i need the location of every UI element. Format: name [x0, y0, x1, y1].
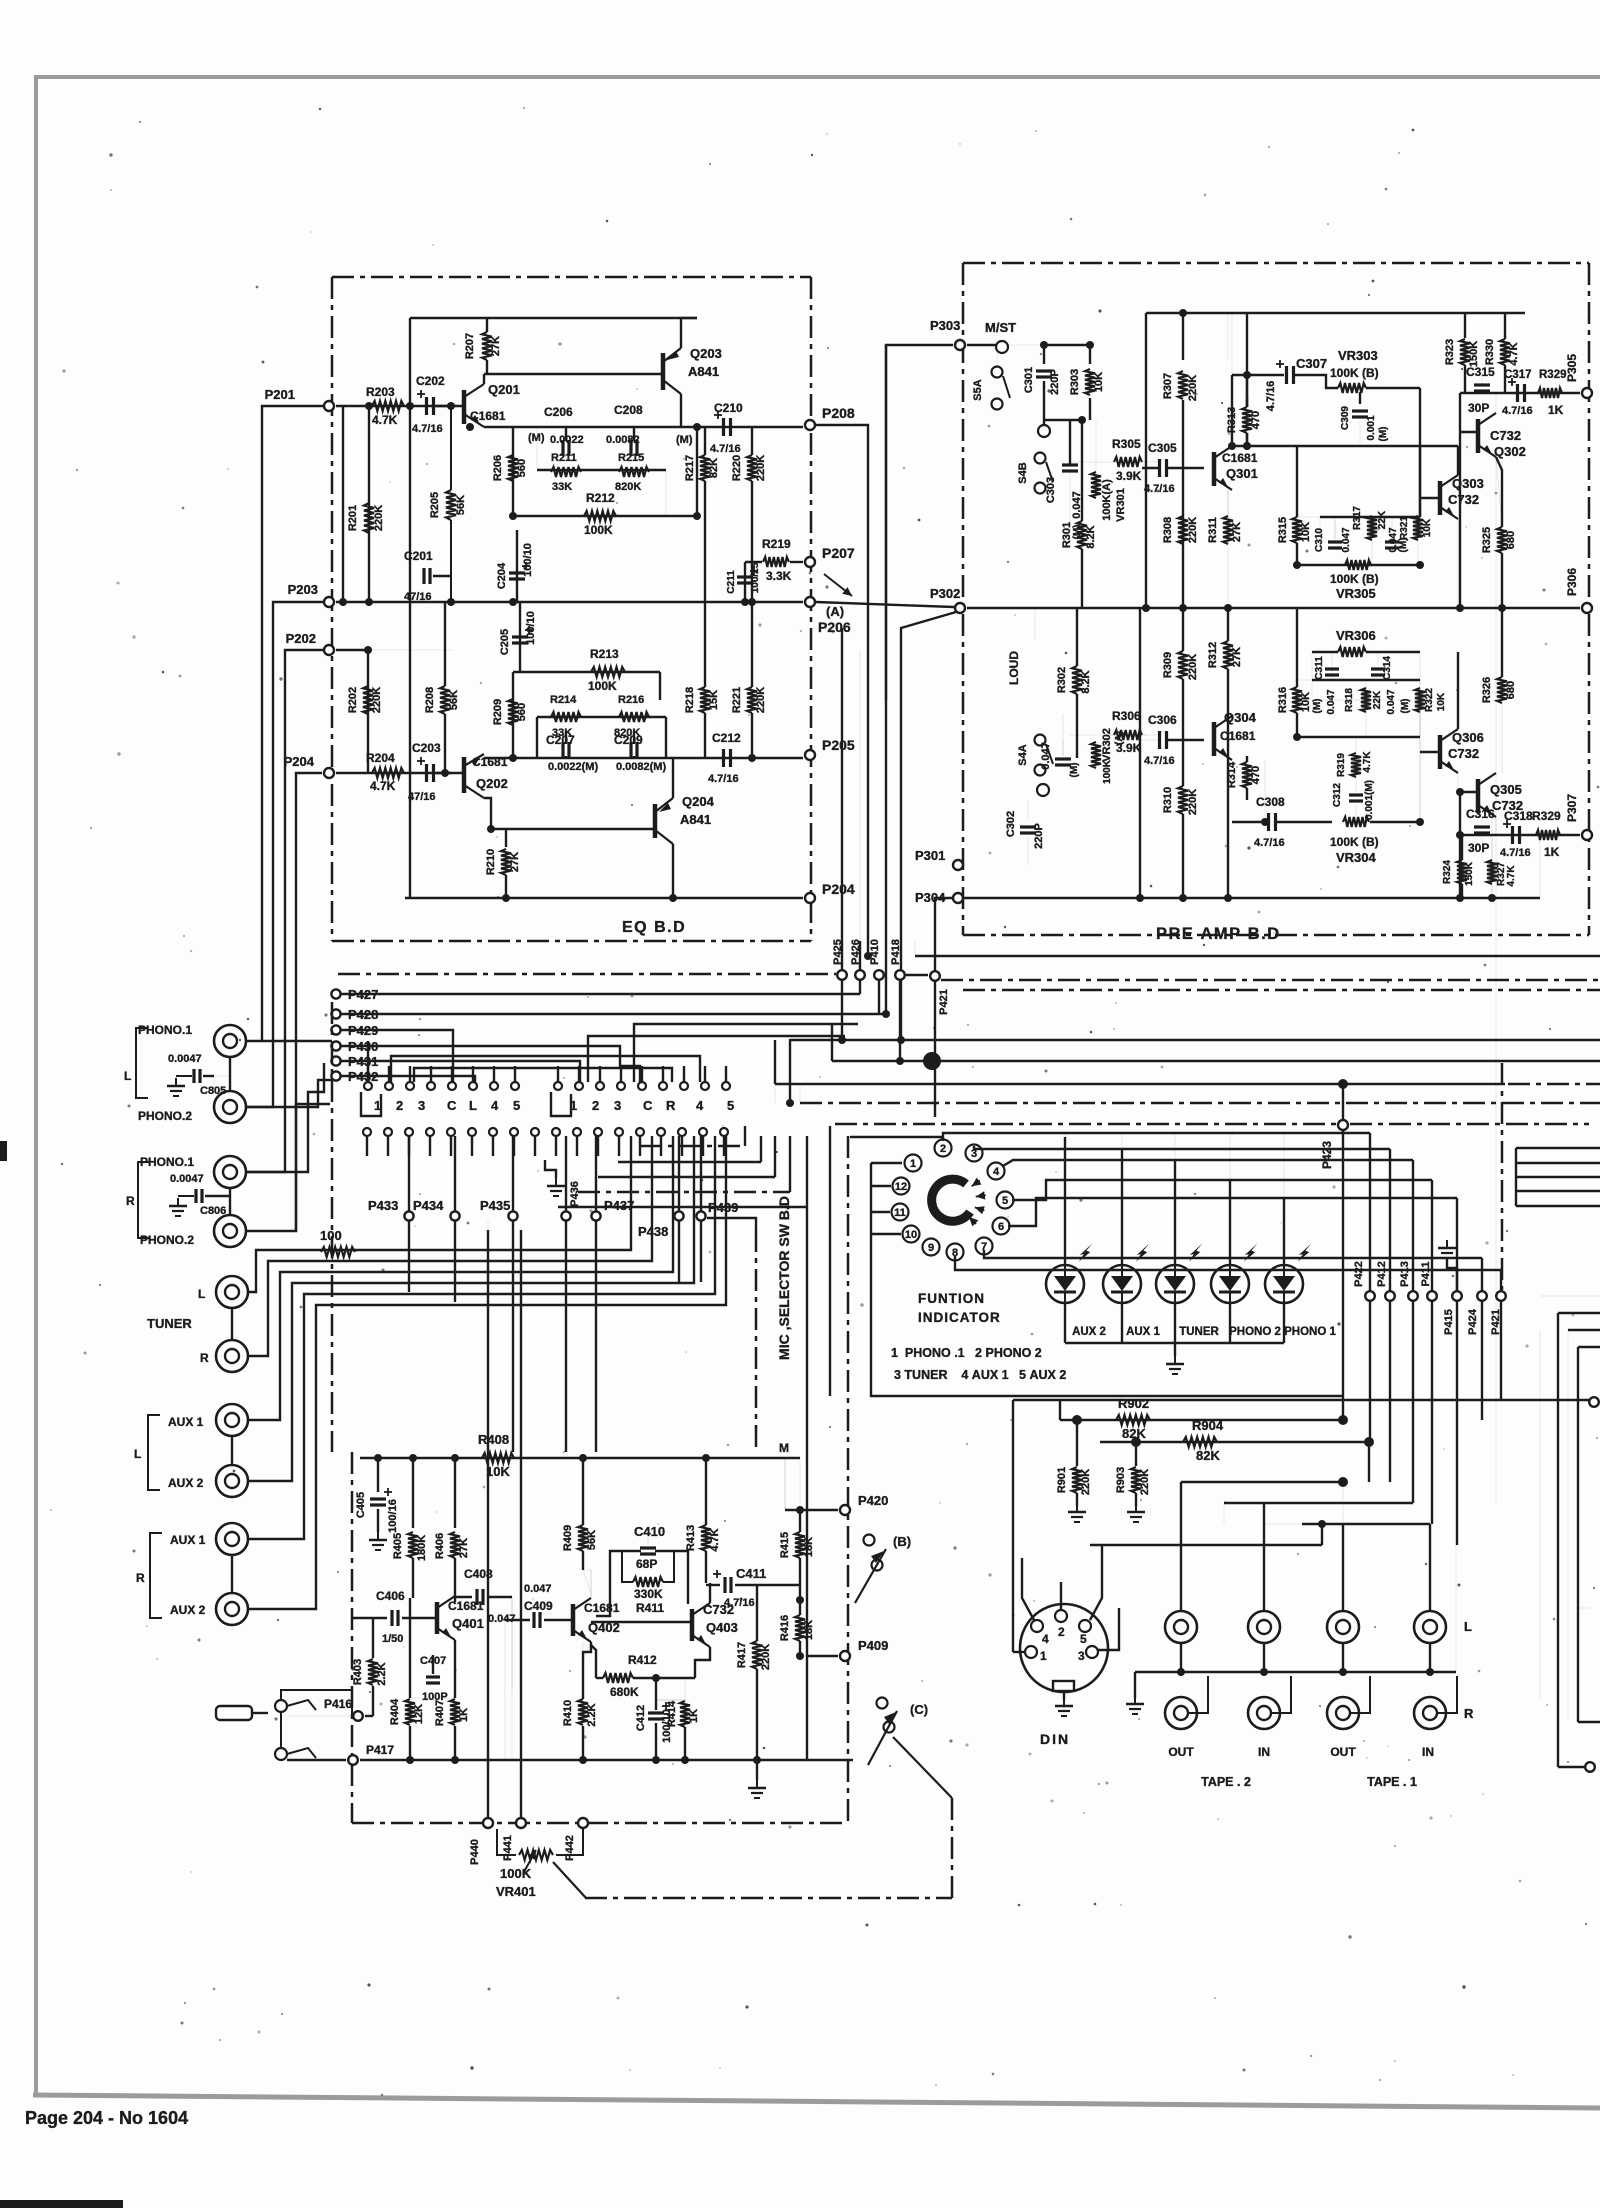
svg-text:0.047: 0.047	[1040, 742, 1052, 770]
svg-text:IN: IN	[1422, 1745, 1434, 1759]
svg-text:C311: C311	[1314, 656, 1325, 680]
svg-text:P437: P437	[604, 1198, 634, 1213]
svg-text:C405: C405	[355, 1492, 367, 1518]
svg-text:R902: R902	[1118, 1396, 1149, 1411]
svg-text:0.0047: 0.0047	[170, 1173, 204, 1185]
svg-text:3: 3	[614, 1098, 621, 1113]
svg-text:R: R	[200, 1351, 209, 1365]
svg-text:100/10: 100/10	[525, 611, 537, 645]
svg-text:L: L	[124, 1069, 131, 1083]
svg-text:P426: P426	[850, 939, 862, 965]
svg-text:P303: P303	[930, 318, 960, 333]
svg-text:C202: C202	[416, 374, 445, 388]
svg-text:R: R	[136, 1571, 145, 1585]
svg-text:82K: 82K	[1196, 1448, 1220, 1463]
svg-text:4.7K: 4.7K	[1508, 342, 1520, 365]
svg-text:C309: C309	[1340, 406, 1351, 430]
svg-text:1/50: 1/50	[382, 1633, 403, 1645]
svg-text:0.001(M): 0.001(M)	[1364, 780, 1375, 820]
svg-text:TUNER: TUNER	[147, 1316, 192, 1331]
svg-text:R406: R406	[434, 1533, 446, 1559]
svg-text:10K: 10K	[1422, 518, 1433, 537]
svg-text:C406: C406	[376, 1589, 405, 1603]
svg-text:82K: 82K	[708, 458, 720, 478]
svg-text:220K: 220K	[371, 687, 383, 713]
svg-text:0.0047: 0.0047	[168, 1053, 202, 1065]
svg-text:L: L	[469, 1098, 477, 1113]
svg-text:27K: 27K	[1231, 522, 1243, 542]
svg-text:R323: R323	[1444, 339, 1456, 365]
svg-text:30P: 30P	[1468, 841, 1489, 855]
svg-text:47/16: 47/16	[408, 791, 436, 803]
svg-text:4.7/16: 4.7/16	[1144, 483, 1175, 495]
svg-text:R413: R413	[685, 1525, 697, 1551]
svg-text:PHONO 1: PHONO 1	[1284, 1326, 1336, 1338]
svg-text:56K: 56K	[586, 1530, 598, 1550]
svg-text:560: 560	[516, 459, 528, 477]
svg-text:4.7/16: 4.7/16	[1502, 405, 1533, 417]
svg-text:470: 470	[1250, 411, 1262, 429]
svg-text:33K: 33K	[552, 481, 572, 493]
svg-text:(M): (M)	[1312, 699, 1323, 714]
svg-text:P306: P306	[1565, 568, 1579, 596]
svg-text:22K: 22K	[1372, 690, 1383, 709]
svg-text:0.047: 0.047	[1326, 689, 1337, 714]
svg-text:M: M	[779, 1441, 789, 1455]
svg-text:R407: R407	[434, 1700, 446, 1726]
svg-text:100K(A): 100K(A)	[1101, 479, 1113, 521]
svg-text:10K: 10K	[1093, 372, 1105, 392]
svg-text:P204: P204	[284, 754, 315, 769]
svg-text:R318: R318	[1344, 688, 1355, 712]
svg-text:220K: 220K	[755, 687, 767, 713]
svg-text:R325: R325	[1481, 527, 1493, 553]
svg-text:100/16: 100/16	[387, 1499, 399, 1533]
svg-text:R412: R412	[628, 1653, 657, 1667]
svg-text:R405: R405	[392, 1533, 404, 1559]
svg-text:P302: P302	[930, 586, 960, 601]
svg-text:56K: 56K	[455, 495, 467, 515]
svg-text:C407: C407	[420, 1655, 446, 1667]
svg-text:C732: C732	[1448, 492, 1479, 507]
svg-text:M/ST: M/ST	[985, 320, 1016, 335]
svg-text:18K: 18K	[803, 1620, 815, 1640]
svg-text:R308: R308	[1162, 517, 1174, 543]
svg-text:DIN: DIN	[1040, 1731, 1070, 1747]
svg-text:P423: P423	[1320, 1141, 1334, 1169]
svg-text:100/25: 100/25	[750, 562, 761, 593]
svg-text:10K: 10K	[486, 1464, 510, 1479]
svg-text:R210: R210	[485, 849, 497, 875]
svg-text:R321: R321	[1399, 516, 1410, 540]
svg-text:P412: P412	[1376, 1261, 1388, 1287]
svg-text:R207: R207	[464, 333, 476, 359]
svg-text:R901: R901	[1056, 1467, 1068, 1493]
svg-text:0.047: 0.047	[1386, 689, 1397, 714]
svg-text:R322: R322	[1424, 688, 1435, 712]
svg-text:100K: 100K	[588, 679, 617, 693]
svg-text:FUNTION: FUNTION	[918, 1291, 985, 1306]
svg-text:220K: 220K	[373, 505, 385, 531]
svg-text:(M): (M)	[528, 432, 545, 444]
svg-text:R330: R330	[1484, 339, 1496, 365]
svg-text:P435: P435	[480, 1198, 510, 1213]
svg-text:100/10: 100/10	[522, 543, 534, 577]
svg-text:C305: C305	[1148, 441, 1177, 455]
svg-text:P411: P411	[1420, 1261, 1432, 1286]
svg-text:R408: R408	[478, 1432, 509, 1447]
svg-text:PRE AMP B.D: PRE AMP B.D	[1156, 925, 1281, 943]
svg-text:A841: A841	[688, 364, 719, 379]
svg-text:27K: 27K	[458, 1538, 470, 1558]
svg-text:1 PHONO .1 2 PHONO 2: 1 PHONO .1 2 PHONO 2	[891, 1346, 1042, 1360]
svg-text:P433: P433	[368, 1198, 398, 1213]
svg-text:Q403: Q403	[706, 1620, 738, 1635]
svg-text:P420: P420	[858, 1493, 888, 1508]
svg-text:5: 5	[1002, 1195, 1008, 1207]
svg-text:1K: 1K	[1544, 845, 1560, 859]
svg-text:TAPE . 2: TAPE . 2	[1201, 1775, 1251, 1789]
svg-text:PHONO.1: PHONO.1	[138, 1023, 192, 1037]
svg-text:4.7/16: 4.7/16	[710, 443, 741, 455]
svg-text:4.7K: 4.7K	[370, 779, 396, 793]
svg-text:C1681: C1681	[1220, 729, 1256, 743]
svg-text:S4B: S4B	[1017, 462, 1029, 483]
svg-text:S5A: S5A	[972, 379, 984, 400]
svg-text:C316: C316	[1466, 807, 1495, 821]
svg-text:Q305: Q305	[1490, 782, 1522, 797]
svg-text:R329: R329	[1532, 809, 1561, 823]
svg-text:10: 10	[905, 1229, 917, 1241]
svg-text:C204: C204	[496, 562, 508, 589]
svg-text:100K: 100K	[584, 523, 613, 537]
svg-text:IN: IN	[1258, 1745, 1270, 1759]
svg-text:R204: R204	[366, 751, 395, 765]
svg-text:11: 11	[894, 1207, 906, 1219]
svg-text:C206: C206	[544, 405, 573, 419]
svg-text:2: 2	[396, 1098, 403, 1113]
svg-text:Q201: Q201	[488, 382, 520, 397]
svg-text:R904: R904	[1192, 1418, 1224, 1433]
svg-text:C: C	[447, 1098, 457, 1113]
svg-text:P205: P205	[822, 737, 855, 753]
svg-text:R216: R216	[618, 694, 644, 706]
svg-text:R: R	[126, 1194, 135, 1208]
svg-text:C312: C312	[1332, 783, 1343, 807]
svg-text:0.047: 0.047	[1341, 527, 1352, 552]
svg-text:C301: C301	[1023, 367, 1035, 393]
svg-text:4.7/16: 4.7/16	[1144, 755, 1175, 767]
svg-text:P434: P434	[413, 1198, 444, 1213]
svg-text:A841: A841	[680, 812, 711, 827]
svg-text:R307: R307	[1162, 373, 1174, 399]
svg-text:(M): (M)	[1400, 699, 1411, 714]
svg-text:R301: R301	[1061, 522, 1073, 548]
svg-text:P201: P201	[265, 387, 295, 402]
svg-text:15K: 15K	[708, 690, 720, 710]
svg-text:3.9K: 3.9K	[1116, 741, 1142, 755]
svg-text:10K: 10K	[1436, 692, 1447, 711]
svg-text:C207: C207	[546, 733, 575, 747]
svg-text:27K: 27K	[1231, 647, 1243, 667]
svg-text:R903: R903	[1115, 1467, 1127, 1493]
svg-text:220K: 220K	[1080, 1469, 1092, 1495]
svg-text:R302: R302	[1056, 667, 1068, 693]
svg-text:220K: 220K	[1187, 517, 1199, 543]
svg-text:56K: 56K	[448, 690, 460, 710]
svg-text:P425: P425	[832, 939, 844, 965]
svg-text:4: 4	[993, 1166, 1000, 1178]
svg-text:4: 4	[491, 1098, 499, 1113]
svg-text:(M): (M)	[1378, 427, 1389, 442]
svg-text:Q401: Q401	[452, 1616, 484, 1631]
svg-text:1K: 1K	[458, 1708, 470, 1722]
svg-text:AUX 1: AUX 1	[1126, 1326, 1160, 1338]
svg-text:R411: R411	[636, 1601, 664, 1615]
svg-text:820K: 820K	[615, 481, 641, 493]
svg-text:R414: R414	[666, 1700, 678, 1727]
svg-text:22K: 22K	[1377, 510, 1388, 529]
svg-text:C205: C205	[499, 629, 511, 655]
svg-text:R314: R314	[1226, 761, 1238, 788]
svg-text:0.0082: 0.0082	[606, 434, 640, 446]
svg-text:PHONO 2: PHONO 2	[1229, 1326, 1281, 1338]
svg-text:220K: 220K	[1187, 789, 1199, 815]
svg-text:R214: R214	[550, 694, 577, 706]
svg-text:MIC ,SELECTOR SW B.D: MIC ,SELECTOR SW B.D	[776, 1196, 792, 1360]
svg-text:P409: P409	[858, 1638, 888, 1653]
svg-text:R326: R326	[1481, 677, 1493, 703]
svg-text:Q302: Q302	[1494, 444, 1526, 459]
svg-text:R310: R310	[1162, 787, 1174, 813]
svg-text:C1681: C1681	[584, 1601, 620, 1615]
svg-text:0.0022: 0.0022	[550, 434, 584, 446]
svg-text:TUNER: TUNER	[1179, 1326, 1219, 1338]
svg-text:12K: 12K	[413, 1704, 425, 1724]
svg-text:4.7/16: 4.7/16	[708, 773, 739, 785]
svg-text:PHONO.2: PHONO.2	[140, 1233, 194, 1247]
svg-text:4.7/16: 4.7/16	[1265, 381, 1277, 412]
svg-text:P410: P410	[869, 939, 881, 965]
svg-text:R213: R213	[590, 647, 619, 661]
svg-text:AUX 2: AUX 2	[1072, 1326, 1106, 1338]
svg-text:8.2K: 8.2K	[1085, 525, 1097, 548]
svg-text:C411: C411	[736, 1566, 766, 1581]
svg-text:27K: 27K	[509, 852, 521, 872]
svg-text:R316: R316	[1277, 687, 1289, 713]
svg-text:P438: P438	[638, 1224, 668, 1239]
svg-text:560: 560	[516, 703, 528, 721]
svg-text:3: 3	[1078, 1649, 1085, 1663]
svg-text:EQ B.D: EQ B.D	[622, 919, 686, 936]
svg-text:10K: 10K	[1300, 522, 1312, 542]
svg-text:2.2K: 2.2K	[376, 1662, 388, 1685]
svg-text:4.7/16: 4.7/16	[724, 1597, 755, 1609]
svg-text:10K: 10K	[1300, 692, 1312, 712]
svg-text:(M): (M)	[1069, 763, 1080, 778]
svg-text:P301: P301	[915, 848, 945, 863]
svg-text:C409: C409	[524, 1599, 553, 1613]
svg-text:12: 12	[895, 1181, 907, 1193]
svg-text:R312: R312	[1207, 642, 1219, 668]
svg-text:P442: P442	[564, 1835, 576, 1861]
svg-text:R324: R324	[1442, 860, 1453, 884]
svg-text:C209: C209	[614, 733, 643, 747]
svg-text:680: 680	[1505, 681, 1517, 699]
svg-text:3.9K: 3.9K	[1116, 469, 1142, 483]
svg-text:150K: 150K	[1468, 341, 1480, 367]
svg-text:VR306: VR306	[1336, 628, 1376, 643]
svg-text:(M): (M)	[676, 434, 693, 446]
svg-text:220K: 220K	[1187, 375, 1199, 401]
svg-text:R: R	[1464, 1706, 1474, 1721]
svg-text:1: 1	[910, 1158, 916, 1170]
svg-text:(A): (A)	[826, 604, 844, 619]
svg-text:C310: C310	[1314, 528, 1325, 552]
svg-text:OUT: OUT	[1168, 1745, 1194, 1759]
svg-text:100K: 100K	[1102, 759, 1113, 784]
svg-text:30P: 30P	[1468, 401, 1489, 415]
svg-text:C318: C318	[1504, 809, 1533, 823]
svg-text:AUX 1: AUX 1	[168, 1415, 204, 1429]
svg-text:C306: C306	[1148, 713, 1177, 727]
svg-text:R201: R201	[347, 505, 359, 531]
svg-text:4: 4	[696, 1098, 704, 1113]
svg-text:AUX 2: AUX 2	[170, 1603, 206, 1617]
svg-text:TAPE . 1: TAPE . 1	[1367, 1775, 1417, 1789]
svg-text:6: 6	[998, 1221, 1004, 1233]
svg-text:P305: P305	[1565, 354, 1579, 382]
svg-text:R404: R404	[389, 1698, 401, 1725]
svg-text:R305: R305	[1112, 437, 1141, 451]
svg-text:LOUD: LOUD	[1007, 651, 1021, 685]
svg-text:220K: 220K	[1139, 1469, 1151, 1495]
svg-text:R: R	[666, 1098, 676, 1113]
svg-text:C732: C732	[1490, 428, 1521, 443]
svg-text:R306: R306	[1112, 709, 1141, 723]
svg-text:P424: P424	[1467, 1308, 1479, 1335]
svg-text:R319: R319	[1336, 753, 1347, 777]
svg-text:27K: 27K	[490, 336, 502, 356]
svg-text:5: 5	[513, 1098, 520, 1113]
svg-text:100K (B): 100K (B)	[1330, 572, 1379, 586]
svg-text:PHONO.2: PHONO.2	[138, 1109, 192, 1123]
svg-text:R212: R212	[586, 491, 615, 505]
svg-text:100K (B): 100K (B)	[1330, 366, 1379, 380]
svg-text:P202: P202	[286, 631, 316, 646]
svg-text:VR303: VR303	[1338, 348, 1378, 363]
svg-text:8.2K: 8.2K	[1080, 670, 1092, 693]
svg-text:4: 4	[1042, 1632, 1049, 1646]
svg-text:2: 2	[592, 1098, 599, 1113]
svg-text:P418: P418	[890, 939, 902, 965]
svg-text:18K: 18K	[803, 1537, 815, 1557]
svg-text:4.7K: 4.7K	[1362, 751, 1373, 773]
svg-text:0.0082(M): 0.0082(M)	[616, 761, 666, 773]
svg-text:R218: R218	[684, 687, 696, 713]
svg-text:P422: P422	[1353, 1261, 1365, 1287]
svg-text:C: C	[643, 1098, 653, 1113]
svg-text:VR304: VR304	[1336, 850, 1377, 865]
svg-text:680: 680	[1505, 531, 1517, 549]
svg-text:180K: 180K	[416, 1535, 428, 1561]
svg-text:R417: R417	[736, 1642, 748, 1668]
svg-text:R215: R215	[618, 452, 644, 464]
svg-text:3: 3	[418, 1098, 425, 1113]
svg-text:68P: 68P	[636, 1557, 657, 1571]
svg-text:C315: C315	[1466, 365, 1495, 379]
svg-text:4.7K: 4.7K	[372, 413, 398, 427]
svg-text:S4A: S4A	[1017, 744, 1029, 765]
svg-text:R208: R208	[424, 687, 436, 713]
svg-text:R309: R309	[1162, 652, 1174, 678]
svg-text:220P: 220P	[1049, 369, 1061, 395]
svg-text:P436: P436	[569, 1181, 581, 1207]
svg-text:100K (B): 100K (B)	[1330, 835, 1379, 849]
svg-text:AUX 2: AUX 2	[168, 1476, 204, 1490]
svg-text:P413: P413	[1399, 1261, 1411, 1287]
svg-text:R220: R220	[731, 455, 743, 481]
svg-text:Q301: Q301	[1226, 466, 1258, 481]
svg-text:1: 1	[1040, 1649, 1047, 1663]
svg-text:C732: C732	[1448, 746, 1479, 761]
svg-text:R217: R217	[684, 455, 696, 481]
svg-text:VR401: VR401	[496, 1884, 536, 1899]
svg-text:P441: P441	[502, 1835, 514, 1861]
svg-text:(C): (C)	[910, 1702, 928, 1717]
svg-text:C317: C317	[1504, 369, 1532, 381]
svg-text:100K: 100K	[500, 1866, 532, 1881]
svg-text:OUT: OUT	[1330, 1745, 1356, 1759]
svg-text:R206: R206	[492, 455, 504, 481]
svg-text:4.7/16: 4.7/16	[412, 423, 443, 435]
svg-text:P440: P440	[469, 1839, 481, 1865]
svg-text:C805: C805	[200, 1085, 226, 1097]
svg-text:100: 100	[320, 1228, 342, 1243]
svg-text:680K: 680K	[610, 1685, 639, 1699]
svg-text:C302: C302	[1005, 811, 1017, 837]
svg-text:Q306: Q306	[1452, 730, 1484, 745]
svg-text:220K: 220K	[755, 455, 767, 481]
svg-text:R211: R211	[551, 452, 577, 464]
svg-text:R311: R311	[1207, 517, 1219, 543]
svg-text:5: 5	[1080, 1632, 1087, 1646]
svg-text:(B): (B)	[893, 1534, 911, 1549]
svg-text:5: 5	[727, 1098, 734, 1113]
svg-text:1K: 1K	[688, 1709, 700, 1723]
svg-text:9: 9	[928, 1242, 934, 1254]
svg-text:3 TUNER 4 AUX 1 5 AUX 2: 3 TUNER 4 AUX 1 5 AUX 2	[894, 1368, 1066, 1382]
svg-text:R415: R415	[779, 1532, 791, 1558]
svg-text:R205: R205	[429, 492, 441, 518]
svg-text:VR302: VR302	[1101, 728, 1113, 762]
svg-text:Q202: Q202	[476, 776, 508, 791]
svg-text:4.7/16: 4.7/16	[1254, 837, 1285, 849]
svg-text:R202: R202	[347, 687, 359, 713]
svg-text:L: L	[198, 1287, 205, 1301]
svg-text:P203: P203	[288, 582, 318, 597]
svg-text:L: L	[1464, 1619, 1472, 1634]
svg-text:150K: 150K	[1464, 861, 1475, 886]
svg-text:R409: R409	[562, 1525, 574, 1551]
svg-text:C412: C412	[635, 1705, 647, 1731]
svg-text:R303: R303	[1069, 369, 1081, 395]
svg-text:4.7/16: 4.7/16	[1500, 847, 1531, 859]
svg-text:C203: C203	[412, 741, 441, 755]
svg-text:220P: 220P	[1033, 823, 1045, 849]
svg-text:Page 204 - No 1604: Page 204 - No 1604	[25, 2108, 188, 2128]
svg-text:VR301: VR301	[1115, 488, 1127, 522]
